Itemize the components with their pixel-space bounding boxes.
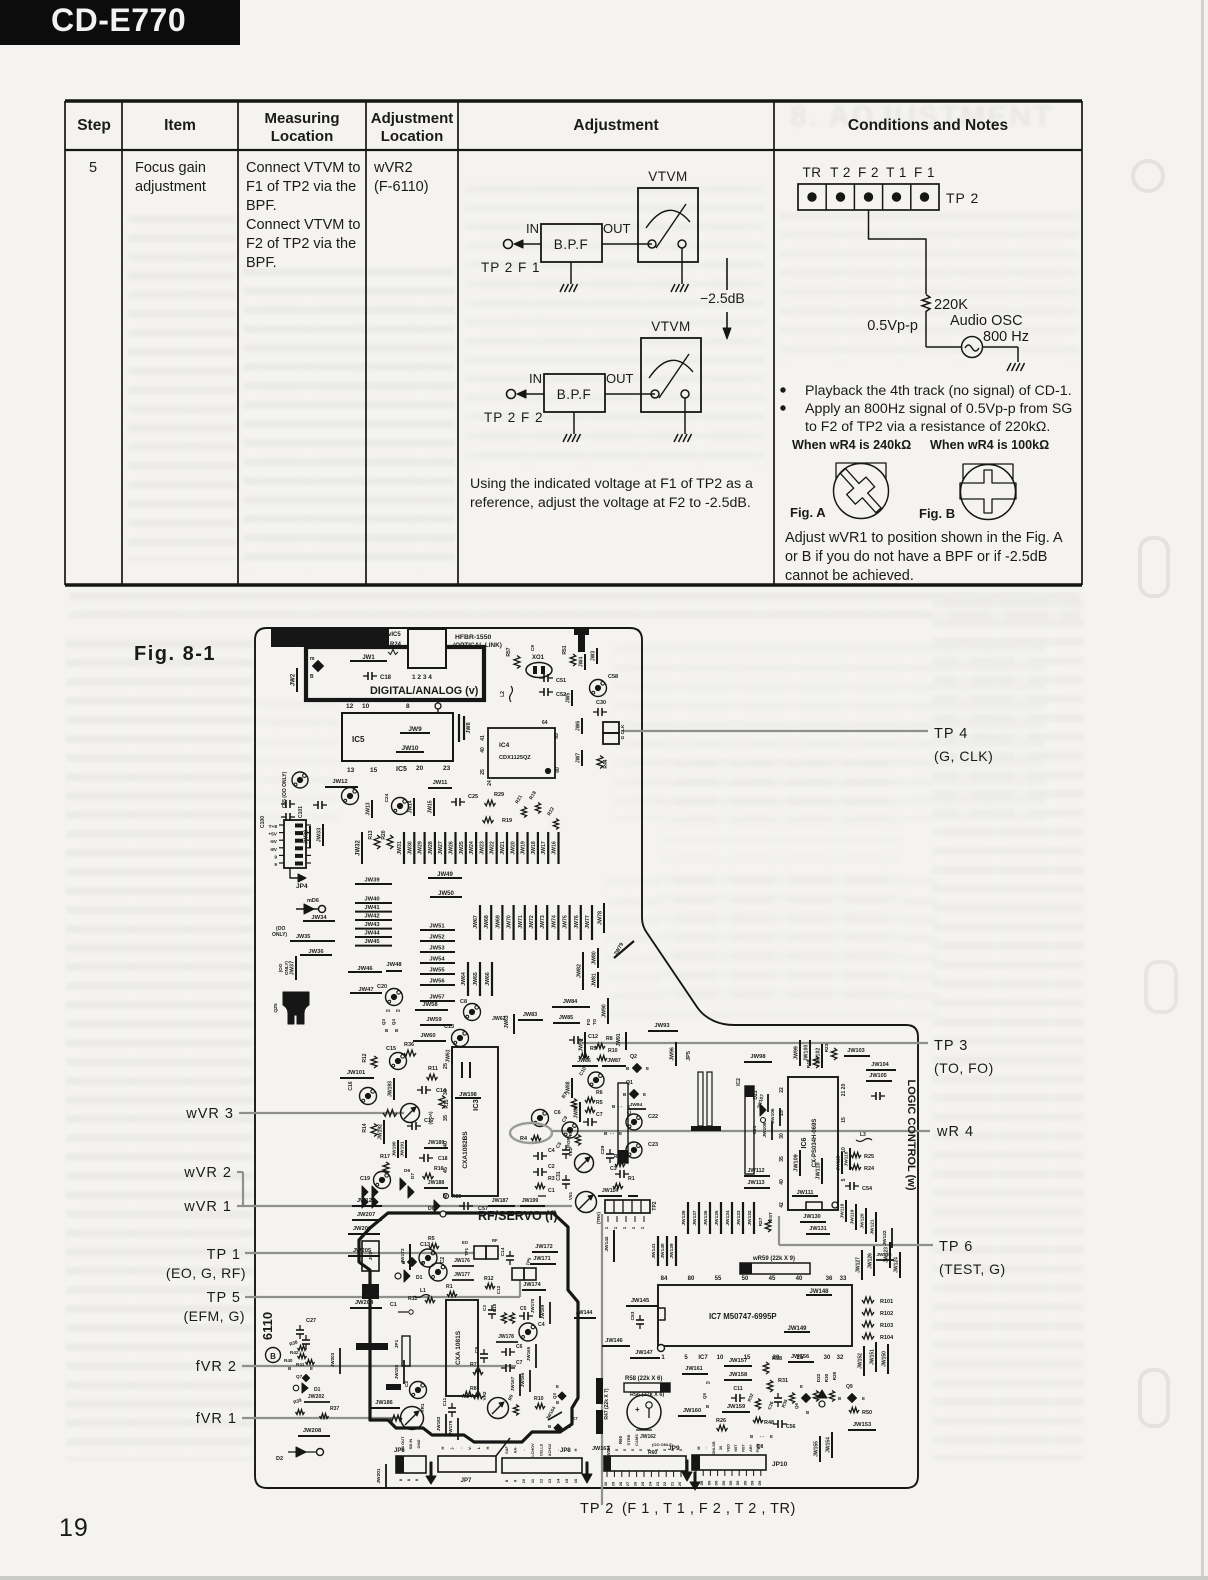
svg-text:JW138: JW138 [681, 1210, 687, 1226]
svg-text:H: H [485, 1446, 490, 1449]
capacitor C52 [539, 691, 544, 693]
svg-text:VR1: VR1 [420, 1403, 425, 1412]
jumper JW71 [524, 905, 526, 940]
svg-text:fVR 2: fVR 2 [196, 1359, 237, 1375]
svg-text:19: 19 [59, 1514, 89, 1542]
svg-text:Fig. 8-1: Fig. 8-1 [134, 643, 216, 665]
svg-text:G CLK: G CLK [620, 724, 626, 739]
svg-text:JW207: JW207 [357, 1212, 375, 1218]
svg-text:JW27: JW27 [438, 841, 444, 855]
connector JP7 [438, 1456, 496, 1472]
svg-text:JW141: JW141 [651, 1243, 657, 1259]
svg-text:D1: D1 [314, 1387, 321, 1393]
callout fVR 2 line [242, 1365, 516, 1367]
svg-text:JW25: JW25 [459, 841, 465, 855]
svg-text:JW146: JW146 [605, 1338, 622, 1344]
svg-text:to F2 of TP2 via a resistance: to F2 of TP2 via a resistance of 220kΩ. [805, 419, 1050, 435]
svg-text:JW96: JW96 [670, 1047, 676, 1061]
svg-text:JW16: JW16 [552, 841, 558, 855]
jumper JW133 [742, 1202, 744, 1234]
svg-text:R32: R32 [747, 1392, 755, 1402]
svg-text:R30: R30 [824, 1373, 829, 1382]
resistor R47 strip [596, 1378, 603, 1404]
svg-text:28: 28 [618, 1481, 623, 1486]
svg-text:JP10: JP10 [772, 1461, 788, 1468]
svg-text:R58: R58 [772, 1356, 782, 1362]
svg-text:JW192: JW192 [378, 1124, 384, 1140]
capacitor mid [871, 1095, 876, 1097]
svg-text:27: 27 [625, 1481, 630, 1486]
svg-text:- -: - - [610, 1131, 615, 1136]
svg-text:C5: C5 [555, 1141, 564, 1150]
svg-text:R26: R26 [716, 1418, 726, 1424]
transistor C44 upper-left [292, 772, 308, 788]
svg-text:C31: C31 [556, 1171, 562, 1180]
svg-text:JW105: JW105 [869, 1073, 886, 1079]
svg-text:JW58: JW58 [422, 1002, 438, 1008]
capacitor C12 [569, 1039, 574, 1041]
svg-text:36: 36 [826, 1276, 833, 1282]
svg-text:C55 (OO ONLY): C55 (OO ONLY) [282, 771, 288, 808]
svg-text:D8: D8 [758, 1481, 762, 1486]
svg-text:C18: C18 [380, 675, 392, 681]
svg-text:m: m [310, 656, 315, 662]
resistor R102 [862, 1309, 874, 1315]
svg-text:JW77: JW77 [585, 915, 591, 929]
svg-text:L3: L3 [860, 1132, 866, 1138]
svg-text:C51: C51 [556, 678, 566, 684]
svg-text:STRB: STRB [626, 1434, 631, 1445]
svg-text:VTVM: VTVM [651, 319, 691, 334]
diode D1 left [293, 1385, 299, 1391]
svg-text:When wR4 is 240kΩ: When wR4 is 240kΩ [792, 438, 911, 452]
svg-text:R4: R4 [520, 1136, 528, 1142]
svg-text:41: 41 [480, 735, 486, 741]
svg-text:S: S [639, 1448, 643, 1451]
svg-text:JW140: JW140 [660, 1243, 666, 1259]
svg-text:JW193: JW193 [388, 1081, 394, 1097]
jumper JW77 [591, 905, 593, 940]
svg-text:C100: C100 [260, 816, 266, 828]
svg-text:JW208: JW208 [303, 1428, 322, 1434]
svg-text:C10: C10 [578, 1066, 588, 1077]
svg-text:R51: R51 [562, 645, 568, 654]
svg-text:R35: R35 [781, 1398, 789, 1408]
svg-text:11: 11 [530, 1478, 535, 1483]
svg-text:JW6: JW6 [576, 721, 582, 732]
svg-text:R60: R60 [648, 1450, 657, 1456]
svg-text:JW176: JW176 [454, 1258, 470, 1264]
svg-text:JW31: JW31 [397, 841, 403, 855]
resistor R103 [862, 1321, 874, 1327]
transistor near IC5 [342, 788, 359, 805]
svg-text:20: 20 [416, 765, 424, 772]
svg-text:R50: R50 [862, 1410, 872, 1416]
svg-text:K7: K7 [572, 1416, 578, 1421]
svg-text:Measuring: Measuring [264, 110, 339, 127]
resistor R20 [387, 835, 393, 849]
capacitor C57 [459, 1205, 464, 1207]
svg-text:JW120: JW120 [860, 1213, 866, 1229]
svg-text:(FOR): (FOR) [566, 1135, 571, 1148]
svg-text:R28: R28 [832, 1371, 837, 1380]
svg-text:JW24: JW24 [469, 841, 475, 855]
svg-text:JW115: JW115 [836, 1155, 842, 1170]
svg-text:0.5Vp-p: 0.5Vp-p [867, 318, 918, 334]
svg-text:IC5: IC5 [396, 766, 407, 773]
svg-text:Q8: Q8 [757, 1444, 764, 1450]
BPF input terminal TP 2 F 1 [504, 240, 513, 249]
svg-text:JW121: JW121 [870, 1219, 876, 1235]
svg-text:F 2: F 2 [858, 165, 879, 180]
svg-text:JW182: JW182 [436, 1416, 441, 1431]
svg-text:RF: RF [492, 1238, 498, 1243]
jumper JW134 [731, 1202, 733, 1234]
svg-text:mD6: mD6 [307, 898, 319, 904]
svg-text:8: 8 [406, 1478, 411, 1481]
svg-text:JW101: JW101 [347, 1070, 366, 1076]
svg-text:L: L [476, 1446, 481, 1449]
svg-text:C19: C19 [360, 1176, 370, 1182]
svg-text:TP 5: TP 5 [207, 1290, 241, 1306]
svg-text:JW174: JW174 [523, 1282, 541, 1288]
svg-text:JW44: JW44 [364, 931, 380, 937]
capacitor C6t [532, 1110, 549, 1127]
svg-text:JW81: JW81 [592, 973, 598, 987]
connector JP8 strip [502, 1458, 582, 1473]
svg-text:TP2: TP2 [652, 1201, 658, 1210]
wire w/ arrow into terminal [521, 393, 544, 395]
svg-text:TP 4: TP 4 [934, 726, 968, 742]
svg-text:JW35: JW35 [296, 934, 310, 940]
svg-text:R36: R36 [404, 1042, 414, 1048]
wire from F2 to resistor [869, 210, 927, 294]
svg-text:R12: R12 [362, 1053, 368, 1062]
svg-text:Conditions and Notes: Conditions and Notes [848, 117, 1008, 134]
svg-text:JW161: JW161 [685, 1366, 702, 1372]
svg-text:35: 35 [779, 1156, 785, 1162]
svg-text:ONLY): ONLY) [284, 961, 289, 975]
svg-text:ONLY): ONLY) [272, 932, 287, 938]
svg-text:15: 15 [564, 1478, 569, 1483]
svg-text:5: 5 [89, 160, 97, 176]
svg-text:C24: C24 [384, 793, 390, 802]
svg-text:JW33: JW33 [317, 828, 323, 842]
svg-text:IC5: IC5 [352, 735, 365, 744]
svg-text:wR 4: wR 4 [936, 1124, 974, 1140]
capacitor C28 plus [636, 1429, 652, 1431]
svg-text:25: 25 [443, 1063, 449, 1069]
svg-text:JP1: JP1 [394, 1339, 400, 1348]
svg-text:C15: C15 [386, 1046, 396, 1052]
svg-text:1: 1 [604, 1226, 609, 1229]
svg-text:R1: R1 [628, 1176, 635, 1182]
callout wVR 1 line [237, 1205, 572, 1207]
svg-text:+: + [635, 1405, 640, 1414]
svg-text:C53: C53 [630, 1311, 636, 1320]
resistor R101 [862, 1297, 874, 1303]
svg-text:JW112: JW112 [747, 1168, 764, 1174]
capacitor C17 [407, 1125, 412, 1127]
wire BPF out to VTVM [602, 243, 652, 245]
test point TP1 [474, 1246, 486, 1259]
svg-text:33: 33 [840, 1276, 847, 1282]
svg-text:IC4: IC4 [499, 742, 510, 749]
svg-text:S: S [615, 1448, 619, 1451]
jumper JW18 [537, 832, 539, 864]
svg-text:(TO, FO): (TO, FO) [934, 1060, 994, 1076]
svg-text:JW64: JW64 [461, 972, 467, 986]
svg-text:9: 9 [513, 1479, 518, 1482]
svg-text:vIC5: vIC5 [388, 632, 401, 638]
svg-text:CDX1125QZ: CDX1125QZ [499, 755, 531, 761]
svg-text:JW132: JW132 [747, 1210, 753, 1226]
svg-text:R6: R6 [596, 1090, 603, 1096]
svg-text:JW151: JW151 [870, 1349, 876, 1365]
svg-text:B: B [548, 1424, 551, 1429]
svg-text:C58: C58 [608, 674, 618, 680]
svg-text:B: B [270, 1352, 276, 1361]
svg-text:40: 40 [779, 1179, 785, 1185]
svg-text:C9: C9 [474, 1347, 480, 1353]
svg-text:6110: 6110 [260, 1312, 275, 1340]
svg-text:JW65: JW65 [473, 972, 479, 986]
svg-text:JW29: JW29 [418, 841, 424, 855]
svg-text:EO: EO [462, 1240, 469, 1245]
svg-text:40: 40 [480, 747, 486, 753]
svg-text:R5: R5 [596, 1100, 603, 1106]
svg-text:Q6: Q6 [794, 1403, 799, 1409]
svg-text:C3: C3 [482, 1305, 487, 1311]
svg-text:Apply an 800Hz signal of 0.5Vp: Apply an 800Hz signal of 0.5Vp-p from SG [805, 401, 1072, 417]
svg-text:DIGITAL/ANALOG (v): DIGITAL/ANALOG (v) [370, 685, 479, 697]
svg-text:Audio OSC: Audio OSC [950, 313, 1023, 329]
svg-text:C27: C27 [306, 1318, 316, 1324]
svg-text:wR59 (22k X 9): wR59 (22k X 9) [752, 1256, 795, 1262]
svg-text:JW63: JW63 [504, 1015, 510, 1028]
svg-text:TP 2: TP 2 [946, 190, 979, 206]
jumper JW138 [687, 1202, 689, 1234]
svg-text:VTVM: VTVM [648, 169, 688, 184]
svg-text:5: 5 [841, 1178, 847, 1181]
test point TP2 connector [605, 1200, 650, 1213]
svg-text:JW113: JW113 [747, 1180, 764, 1186]
jumper JW76 [580, 905, 582, 940]
svg-text:R13: R13 [368, 830, 374, 839]
svg-text:JW98: JW98 [750, 1054, 766, 1060]
svg-text:C26: C26 [767, 1400, 775, 1410]
svg-text:TP 2: TP 2 [580, 1501, 614, 1517]
RF/SERVO section outline f [359, 1213, 578, 1442]
svg-text:JW127: JW127 [856, 1257, 862, 1273]
svg-text:R48: R48 [764, 1420, 774, 1426]
svg-text:JW136: JW136 [703, 1210, 709, 1226]
svg-text:JW165: JW165 [526, 1346, 531, 1361]
IC5 [342, 713, 453, 761]
svg-text:C6: C6 [516, 1344, 523, 1350]
svg-text:JW4: JW4 [579, 657, 585, 668]
svg-text:RF/SERVO (f): RF/SERVO (f) [478, 1209, 558, 1223]
svg-text:45: 45 [769, 1276, 776, 1282]
svg-text:JW156: JW156 [791, 1354, 810, 1360]
svg-text:JW73: JW73 [540, 915, 546, 929]
svg-text:E: E [646, 1066, 649, 1071]
svg-text:JW190: JW190 [392, 1141, 398, 1157]
svg-text:JW30: JW30 [407, 841, 413, 855]
svg-text:L1: L1 [420, 1288, 426, 1294]
svg-text:JW144: JW144 [576, 1310, 593, 1316]
svg-text:(EFM, G): (EFM, G) [183, 1308, 245, 1324]
svg-text:D8: D8 [715, 1481, 719, 1486]
wire w/ arrow into terminal [518, 243, 541, 245]
capacitors row under IC5 left [313, 804, 318, 806]
resistor for wVR3 [383, 1110, 397, 1117]
svg-text:C2: C2 [548, 1164, 555, 1170]
svg-text:JW57: JW57 [429, 995, 444, 1001]
svg-text:JW122: JW122 [882, 1230, 888, 1246]
svg-text:1: 1 [613, 1226, 618, 1229]
svg-text:Fig. B: Fig. B [919, 506, 955, 521]
svg-text:JW162: JW162 [640, 1434, 656, 1440]
svg-text:JW201: JW201 [376, 1468, 382, 1484]
ground under VTVM [684, 398, 686, 434]
svg-text:reference, adjust the voltage: reference, adjust the voltage at F2 to -… [470, 495, 751, 511]
svg-text:80: 80 [688, 1276, 695, 1282]
svg-text:C9: C9 [530, 645, 536, 651]
svg-text:JW39: JW39 [364, 878, 380, 884]
svg-text:LOGIC CONTROL (w): LOGIC CONTROL (w) [905, 1079, 917, 1190]
svg-text:JW104: JW104 [871, 1062, 889, 1068]
svg-text:JW19: JW19 [521, 841, 527, 855]
jumper JW19 [526, 832, 528, 864]
svg-text:(OO ONLY): (OO ONLY) [652, 1442, 673, 1447]
svg-text:JW28: JW28 [428, 841, 434, 855]
svg-text:LCHOV: LCHOV [531, 1443, 535, 1457]
svg-text:SB OUT: SB OUT [400, 1436, 405, 1452]
svg-text:Location: Location [381, 128, 444, 145]
wire resistor to oscillator [925, 311, 927, 347]
capacitor C2 rf [429, 1263, 447, 1281]
svg-text:VED: VED [727, 1444, 731, 1452]
svg-text:JW41: JW41 [364, 905, 380, 911]
svg-text:JW147: JW147 [635, 1350, 652, 1356]
svg-text:JW99: JW99 [794, 1046, 800, 1060]
svg-text:E: E [800, 1384, 803, 1389]
svg-text:C56: C56 [786, 1424, 796, 1430]
svg-text:R42: R42 [290, 1350, 299, 1355]
jumper JW195 [469, 1062, 471, 1078]
-2.5dB arrow [726, 258, 728, 290]
svg-text:S: S [663, 1448, 667, 1451]
svg-text:35: 35 [443, 1115, 449, 1121]
printing artifact dot [231, 19, 235, 23]
svg-text:IC7: IC7 [698, 1355, 708, 1361]
svg-text:65: 65 [554, 733, 560, 739]
svg-text:B: B [806, 1410, 809, 1415]
svg-text:B: B [626, 1066, 630, 1071]
test point TP4 [603, 722, 619, 733]
svg-text:B.P.F: B.P.F [554, 237, 589, 252]
svg-text:1: 1 [622, 1226, 627, 1229]
svg-text:JP8: JP8 [560, 1448, 571, 1454]
svg-text:21: 21 [670, 1481, 675, 1486]
svg-text:JW17: JW17 [541, 841, 547, 855]
svg-text:JW12: JW12 [332, 779, 347, 785]
svg-text:JW199: JW199 [522, 1198, 539, 1204]
jumper JW75 [568, 905, 570, 940]
svg-text:JW3: JW3 [591, 651, 597, 662]
svg-text:Adjust wVR1 to position shown: Adjust wVR1 to position shown in the Fig… [785, 530, 1063, 546]
vIC5 notch component [408, 629, 446, 668]
svg-text:JW48: JW48 [386, 962, 402, 968]
svg-text:(G, CLK): (G, CLK) [934, 748, 993, 764]
svg-text:JP5: JP5 [686, 1051, 692, 1061]
svg-text:-: - [458, 1447, 463, 1449]
svg-text:F 1: F 1 [914, 165, 935, 180]
svg-text:JW103: JW103 [847, 1048, 864, 1054]
svg-text:B: B [706, 1404, 709, 1409]
svg-text:CELLS: CELLS [539, 1443, 543, 1456]
svg-text:JW14: JW14 [408, 800, 414, 813]
jumper JW20 [516, 832, 518, 864]
jumper JW140 [666, 1236, 668, 1266]
svg-text:Adjustment: Adjustment [573, 117, 658, 134]
svg-text:40: 40 [796, 1276, 803, 1282]
svg-text:wVR 3: wVR 3 [185, 1106, 234, 1122]
svg-text:D8: D8 [700, 1481, 704, 1486]
svg-text:BPF.: BPF. [246, 255, 277, 271]
svg-text:R2: R2 [614, 1154, 621, 1160]
svg-text:R37: R37 [330, 1406, 339, 1412]
svg-text:JW74: JW74 [551, 915, 557, 929]
svg-text:R34: R34 [568, 1127, 573, 1136]
svg-text:[-: [- [449, 1446, 454, 1449]
svg-text:B: B [750, 1434, 753, 1439]
svg-text:JW131: JW131 [809, 1226, 826, 1232]
svg-text:R3: R3 [548, 1176, 555, 1182]
svg-text:S: S [679, 1448, 683, 1451]
svg-text:55: 55 [715, 1276, 722, 1282]
jumper JW132 [753, 1202, 755, 1234]
svg-text:C16: C16 [348, 1081, 354, 1090]
svg-text:HFBR-1550: HFBR-1550 [455, 634, 491, 641]
svg-text:JW114: JW114 [602, 1188, 618, 1194]
black bar left rf [356, 1343, 388, 1350]
svg-text:C20: C20 [377, 984, 387, 990]
svg-text:IN: IN [526, 221, 539, 236]
jumper JW22 [496, 832, 498, 864]
svg-text:B: B [385, 1028, 389, 1033]
callout wVR 3 line [239, 1112, 404, 1114]
svg-text:8: 8 [504, 1479, 509, 1482]
svg-text:JW86: JW86 [577, 1058, 591, 1064]
svg-text:OUT: OUT [606, 371, 634, 386]
svg-text:JP7: JP7 [461, 1478, 472, 1484]
svg-text:T 1: T 1 [886, 165, 907, 180]
svg-text:Step: Step [77, 117, 111, 134]
svg-text:C6: C6 [554, 1110, 561, 1116]
svg-text:R103: R103 [880, 1323, 893, 1329]
svg-text:R41: R41 [296, 1362, 305, 1367]
svg-text:m: m [396, 1008, 400, 1013]
svg-text:Q3: Q3 [552, 1393, 557, 1399]
callout TP 6 line [778, 1216, 780, 1245]
binder hole shadow 1 [1133, 161, 1163, 191]
svg-text:JW110: JW110 [816, 1162, 822, 1179]
svg-text:IC7 M50747-6995P: IC7 M50747-6995P [709, 1312, 777, 1321]
svg-text:JW85: JW85 [559, 1015, 573, 1021]
svg-text:C54: C54 [862, 1186, 873, 1192]
